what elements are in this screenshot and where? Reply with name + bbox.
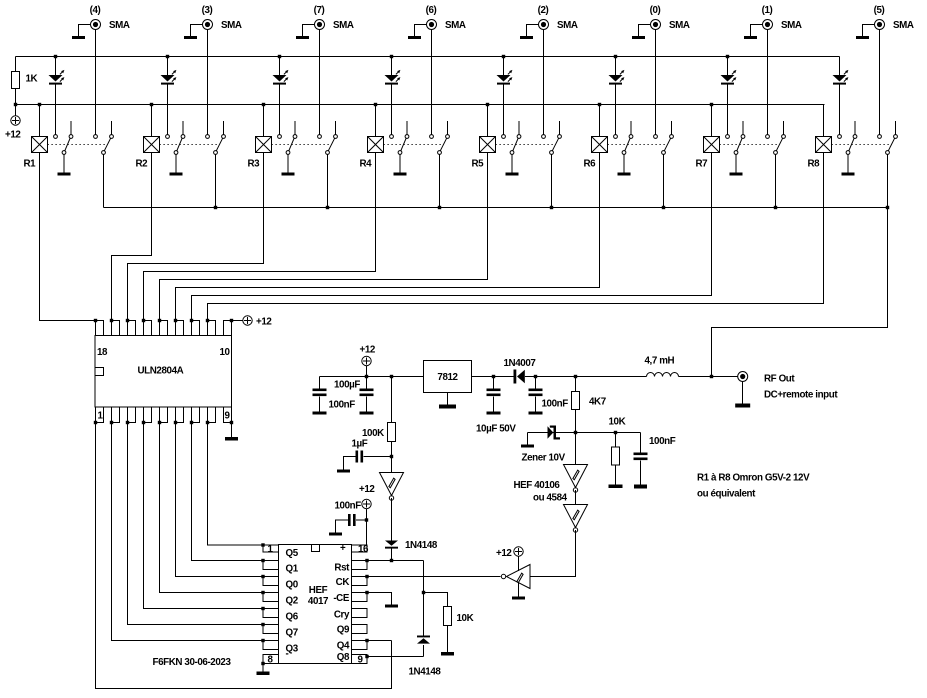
svg-text:Q7: Q7 — [286, 628, 299, 639]
wire contact to RF bus — [551, 155, 553, 208]
svg-text:Q4: Q4 — [337, 641, 350, 652]
wire — [615, 433, 617, 448]
relay contact R7b — [766, 121, 786, 154]
junction — [365, 575, 368, 578]
wire SMA centre to contact — [767, 30, 769, 135]
wire — [319, 377, 321, 389]
relay contact R4a — [390, 121, 409, 154]
svg-text:SMA: SMA — [109, 20, 130, 31]
ground — [337, 470, 350, 473]
junction — [110, 319, 113, 322]
svg-text:Q5: Q5 — [286, 548, 299, 559]
power +12 — [362, 356, 371, 365]
junction — [534, 375, 537, 378]
ground — [329, 533, 342, 536]
relay coil R5 — [480, 137, 496, 153]
wire pin8 to ground — [262, 664, 264, 672]
wire — [356, 519, 367, 521]
junction — [174, 319, 177, 322]
svg-text:RF Out: RF Out — [764, 374, 795, 385]
svg-text:SMA: SMA — [781, 20, 802, 31]
svg-text:R2: R2 — [136, 159, 149, 170]
inductor 4,7 mH — [647, 373, 679, 377]
svg-text:10µF 50V: 10µF 50V — [476, 424, 516, 435]
resistor 100K — [388, 423, 396, 442]
junction — [365, 591, 368, 594]
wire — [63, 155, 65, 173]
pin right row 3 — [352, 577, 368, 586]
svg-text:R7: R7 — [696, 159, 709, 170]
wire — [575, 433, 577, 465]
junction — [261, 623, 264, 626]
svg-text:+: + — [340, 543, 346, 554]
actuation link — [832, 144, 890, 146]
wire Q8 — [367, 656, 424, 658]
svg-text:F6FKN 30-06-2023: F6FKN 30-06-2023 — [153, 657, 232, 668]
svg-text:ULN2804A: ULN2804A — [138, 366, 184, 377]
svg-text:100K: 100K — [362, 428, 384, 439]
wire R8 coil to ULN — [208, 153, 824, 321]
junction — [374, 103, 377, 106]
relay contact R3b — [318, 121, 338, 154]
ground — [72, 36, 85, 39]
ground — [408, 36, 421, 39]
wire contact to RF bus — [103, 155, 105, 208]
pin 10 top — [224, 321, 232, 336]
wire — [527, 433, 529, 445]
svg-text:1µF: 1µF — [352, 439, 368, 450]
ground — [506, 173, 519, 176]
resistor 10K — [612, 447, 620, 465]
capacitor 100nF — [313, 389, 327, 397]
svg-text:(3): (3) — [202, 5, 213, 16]
svg-text:-CE: -CE — [333, 593, 350, 604]
svg-text:+12: +12 — [496, 548, 512, 559]
wire SMA centre to contact — [655, 30, 657, 135]
wire — [391, 549, 393, 561]
pin left row 6 — [263, 625, 279, 634]
wire ULN pin8 to 4017 — [208, 423, 264, 546]
resistor 1K — [12, 72, 20, 89]
junction — [261, 639, 264, 642]
connector RF Out — [738, 372, 748, 382]
wire — [15, 89, 17, 105]
wire SMA shield — [191, 25, 203, 37]
junction — [550, 206, 553, 209]
junction — [158, 421, 161, 424]
relay coil R7 — [704, 137, 720, 153]
relay contact R6b — [654, 121, 674, 154]
wire — [575, 410, 577, 433]
wire RF feed — [712, 208, 888, 377]
junction — [142, 319, 145, 322]
junction — [492, 375, 495, 378]
svg-text:Cry: Cry — [334, 610, 350, 621]
ground — [394, 173, 407, 176]
svg-text:SMA: SMA — [557, 20, 578, 31]
junction — [365, 655, 368, 658]
svg-text:100nF: 100nF — [542, 399, 569, 410]
wire Rst — [367, 560, 424, 562]
wire — [575, 377, 577, 392]
svg-text:18: 18 — [97, 347, 108, 358]
ground — [385, 605, 398, 608]
ground — [313, 412, 327, 415]
junction — [126, 319, 129, 322]
junction — [278, 55, 281, 58]
pin right row 2 — [352, 561, 368, 570]
svg-text:HEF 40106: HEF 40106 — [514, 480, 561, 491]
wire ULN pin5 to 4017 — [160, 423, 264, 593]
capacitor 100nF — [529, 389, 543, 397]
inverter U3c — [564, 505, 588, 533]
ground — [487, 412, 501, 415]
wire 7812 ground — [447, 393, 449, 405]
junction — [390, 559, 393, 562]
ground — [609, 485, 623, 489]
zener diode 10V — [548, 426, 561, 440]
wire 7812 input — [472, 376, 514, 378]
relay coil R6 — [592, 137, 608, 153]
junction — [261, 559, 264, 562]
LED 2 — [161, 57, 177, 135]
junction — [174, 421, 177, 424]
wire — [366, 397, 368, 412]
junction — [774, 206, 777, 209]
wire LED supply bus — [16, 56, 840, 58]
pin 4 bottom — [144, 407, 152, 423]
svg-text:R3: R3 — [248, 159, 261, 170]
svg-text:+12: +12 — [360, 345, 376, 356]
wire ULN pin3 to 4017 — [128, 423, 264, 625]
junction — [126, 421, 129, 424]
actuation link — [720, 144, 778, 146]
wire coil feed — [39, 105, 41, 137]
svg-text:ou équivalent: ou équivalent — [697, 489, 756, 500]
junction — [94, 421, 97, 424]
pin left row 3 — [263, 577, 279, 586]
wire — [424, 593, 448, 607]
wire — [391, 442, 393, 457]
svg-text:SMA: SMA — [445, 20, 466, 31]
relay contact R4b — [430, 121, 450, 154]
svg-text:SMA: SMA — [221, 20, 242, 31]
svg-text:100nF: 100nF — [335, 501, 362, 512]
junction — [390, 55, 393, 58]
svg-text:16: 16 — [358, 544, 369, 555]
wire SMA centre to contact — [431, 30, 433, 135]
LED 5 — [497, 57, 513, 135]
wire — [391, 498, 393, 541]
junction — [726, 55, 729, 58]
capacitor 100nF — [634, 453, 648, 461]
junction — [261, 543, 264, 546]
svg-text:10K: 10K — [609, 417, 626, 428]
junction — [261, 591, 264, 594]
pin right row 5 — [352, 609, 368, 618]
junction — [110, 421, 113, 424]
inverter U3d — [501, 565, 530, 589]
wire contact to RF bus — [775, 155, 777, 208]
wire R7 coil to ULN — [192, 153, 712, 321]
wire — [319, 397, 321, 412]
wire to clock inverter — [531, 530, 576, 577]
wire to RF out — [679, 376, 738, 378]
junction — [365, 639, 368, 642]
pin 11 top — [208, 321, 216, 336]
svg-text:+12: +12 — [256, 317, 272, 328]
diode 1N4148 — [417, 636, 430, 644]
wire — [535, 377, 537, 389]
pin 9 bottom — [224, 407, 232, 423]
IC U1 ULN2804A — [95, 321, 232, 423]
capacitor 10µF 50V — [487, 389, 501, 397]
ground — [618, 173, 631, 176]
junction — [190, 421, 193, 424]
relay coil R3 — [256, 137, 272, 153]
junction — [422, 591, 425, 594]
connector SMA (0) — [651, 20, 661, 30]
wire SMA centre to contact — [879, 30, 881, 135]
junction — [166, 55, 169, 58]
IC U2 HEF4017 — [263, 545, 367, 664]
junction — [486, 103, 489, 106]
wire — [847, 155, 849, 173]
ground — [225, 437, 238, 441]
LED 7 — [721, 57, 737, 135]
wire inverter supply — [518, 557, 520, 572]
junction — [390, 455, 393, 458]
wire — [175, 155, 177, 173]
pin 16 top — [128, 321, 136, 336]
junction — [365, 375, 368, 378]
wire SMA centre to contact — [319, 30, 321, 135]
junction — [261, 575, 264, 578]
pin 2 bottom — [112, 407, 120, 423]
inverter U3a — [380, 473, 404, 501]
wire R6 coil to ULN — [176, 153, 600, 321]
ground — [735, 404, 750, 408]
svg-text:4K7: 4K7 — [589, 397, 607, 408]
svg-text:1K: 1K — [26, 74, 38, 85]
pin left row 2 — [263, 561, 279, 570]
pin 6 bottom — [176, 407, 184, 423]
wire zener — [548, 432, 576, 434]
wire — [535, 397, 537, 412]
pin left row 4 — [263, 593, 279, 602]
connector SMA (7) — [315, 20, 325, 30]
wire coil feed — [599, 105, 601, 137]
wire — [511, 155, 513, 173]
svg-text:(1): (1) — [762, 5, 773, 16]
LED 4 — [385, 57, 401, 135]
capacitor 100nF — [348, 514, 356, 526]
relay contact R5b — [542, 121, 562, 154]
wire +12 relay bus — [16, 104, 825, 106]
wire Q4 — [367, 640, 392, 642]
wire coil feed — [711, 105, 713, 137]
power +12 — [514, 547, 523, 556]
svg-text:Q1: Q1 — [286, 564, 299, 575]
wire — [366, 366, 368, 377]
svg-text:R6: R6 — [584, 159, 597, 170]
wire SMA shield — [527, 25, 539, 37]
svg-text:(5): (5) — [874, 5, 885, 16]
ground — [441, 652, 454, 656]
diode 1N4007 — [514, 370, 525, 384]
wire — [447, 626, 449, 653]
resistor 4K7 — [572, 392, 580, 410]
junction — [261, 607, 264, 610]
wire +12 rail — [320, 376, 424, 378]
svg-text:+12: +12 — [359, 484, 375, 495]
junction — [262, 103, 265, 106]
svg-text:Q0: Q0 — [286, 580, 299, 591]
svg-text:(7): (7) — [314, 5, 325, 16]
wire SMA shield — [863, 25, 875, 37]
svg-text:DC+remote input: DC+remote input — [764, 390, 838, 401]
wire — [423, 645, 425, 657]
junction — [230, 421, 233, 424]
LED 3 — [273, 57, 289, 135]
wire RF shield — [742, 382, 744, 404]
wire contact to RF bus — [439, 155, 441, 208]
wire ULN pin2 to 4017 — [112, 423, 264, 641]
wire coil feed — [375, 105, 377, 137]
wire SMA shield — [415, 25, 427, 37]
junction — [390, 375, 393, 378]
svg-text:1N4148: 1N4148 — [409, 667, 442, 678]
junction — [326, 206, 329, 209]
relay contact R1b — [94, 121, 114, 154]
power +12 — [362, 499, 371, 508]
wire -CE to ground — [367, 593, 392, 605]
svg-text:R1: R1 — [24, 159, 37, 170]
pin 18 top — [96, 321, 104, 336]
junction — [214, 206, 217, 209]
svg-text:R1 à R8 Omron G5V-2 12V: R1 à R8 Omron G5V-2 12V — [697, 473, 810, 484]
wire pin16 to +12 — [366, 509, 368, 545]
pin 8 bottom — [208, 407, 216, 423]
svg-text:(2): (2) — [538, 5, 549, 16]
svg-text:R8: R8 — [808, 159, 821, 170]
svg-text:4,7 mH: 4,7 mH — [645, 356, 675, 367]
svg-text:Rst: Rst — [334, 563, 350, 574]
wire SMA centre to contact — [207, 30, 209, 135]
wire SMA centre to contact — [543, 30, 545, 135]
wire contact to RF bus — [663, 155, 665, 208]
ground — [856, 36, 869, 39]
ground — [184, 36, 197, 39]
pin left row 8 — [263, 655, 279, 664]
wire pin10 to +12 — [232, 320, 243, 322]
wire CK — [367, 576, 501, 578]
LED 8 — [833, 57, 849, 135]
svg-text:R5: R5 — [472, 159, 485, 170]
pin right row 6 — [352, 625, 368, 634]
wire ULN pin7 to 4017 — [192, 423, 264, 561]
wire DC input rail — [525, 376, 647, 378]
actuation link — [608, 144, 666, 146]
junction — [365, 518, 368, 521]
relay contact R6a — [614, 121, 633, 154]
pin 1 bottom — [96, 407, 104, 423]
junction — [886, 206, 889, 209]
relay contact R8b — [878, 121, 898, 154]
actuation link — [272, 144, 330, 146]
actuation link — [496, 144, 554, 146]
wire RF common bus — [104, 207, 888, 209]
pin left row 1 — [263, 545, 279, 552]
svg-text:CK: CK — [336, 577, 350, 588]
wire — [735, 155, 737, 173]
pin 5 bottom — [160, 407, 168, 423]
wire — [493, 377, 495, 389]
wire — [528, 432, 548, 434]
wire contact to RF bus — [327, 155, 329, 208]
junction — [150, 103, 153, 106]
resistor 10K — [444, 607, 452, 626]
wire — [391, 457, 393, 473]
junction — [502, 55, 505, 58]
wire SMA shield — [303, 25, 315, 37]
svg-text:-: - — [286, 649, 289, 660]
actuation link — [160, 144, 218, 146]
svg-text:SMA: SMA — [333, 20, 354, 31]
junction — [142, 421, 145, 424]
svg-text:+12: +12 — [5, 130, 21, 141]
wire SMA shield — [639, 25, 651, 37]
svg-text:1N4007: 1N4007 — [504, 358, 537, 369]
wire R3 coil to ULN — [128, 153, 264, 321]
svg-text:HEF: HEF — [309, 585, 328, 596]
relay coil R1 — [32, 137, 48, 153]
wire — [623, 155, 625, 173]
junction — [614, 431, 617, 434]
wire ULN pin6 to 4017 — [176, 423, 264, 577]
svg-text:Q8: Q8 — [337, 652, 350, 663]
svg-text:SMA: SMA — [893, 20, 914, 31]
wire — [391, 377, 393, 423]
junction — [14, 103, 17, 106]
junction — [230, 319, 233, 322]
pin left row 5 — [263, 609, 279, 618]
wire remote sense — [576, 432, 641, 434]
junction — [190, 319, 193, 322]
relay contact R2b — [206, 121, 226, 154]
wire R5 coil to ULN — [160, 153, 488, 321]
junction — [206, 421, 209, 424]
capacitor 100µF — [360, 389, 374, 397]
actuation link — [384, 144, 442, 146]
pin right row 4 — [352, 593, 368, 602]
svg-text:100µF: 100µF — [334, 380, 360, 391]
junction — [662, 206, 665, 209]
junction — [158, 319, 161, 322]
pin 13 top — [176, 321, 184, 336]
wire — [493, 397, 495, 412]
wire R2 coil to ULN — [112, 153, 152, 321]
junction — [206, 319, 209, 322]
wire — [15, 57, 17, 72]
svg-text:Zener 10V: Zener 10V — [522, 453, 566, 464]
svg-text:Q6: Q6 — [286, 612, 299, 623]
svg-text:10: 10 — [220, 347, 231, 358]
pin 3 bottom — [128, 407, 136, 423]
relay coil R4 — [368, 137, 384, 153]
LED 6 — [609, 57, 625, 135]
svg-text:1N4148: 1N4148 — [405, 540, 438, 551]
